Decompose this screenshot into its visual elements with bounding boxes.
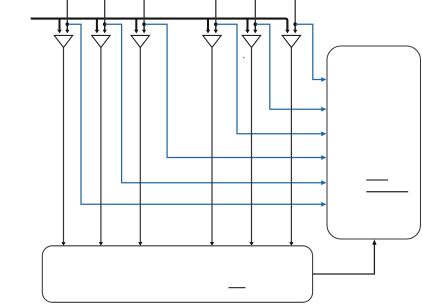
- cell2 input arrow into buffer: [104, 24, 106, 30]
- cell3 blue feedback wire: [145, 24, 322, 157]
- cell5 drive arrow from bus: [247, 18, 249, 31]
- cell6 output wire to bottom block: [290, 48, 292, 243]
- wire bottom block to right block: [313, 243, 375, 274]
- cell2 input wire from top: [104, 0, 106, 24]
- right block (rounded rectangle): [327, 46, 421, 239]
- cell4 junction dot: [214, 22, 218, 26]
- cell3 junction dot: [142, 22, 146, 26]
- cell4 output wire to bottom block: [211, 48, 213, 243]
- right block label underscore short: [366, 179, 388, 181]
- cell1 input wire from top: [66, 0, 68, 24]
- cell1 output wire to bottom block: [63, 48, 65, 243]
- cell1 junction dot: [66, 22, 70, 26]
- cell2 output wire to bottom block: [100, 48, 102, 243]
- cell2 drive arrow from bus: [96, 18, 98, 31]
- cell4 blue feedback wire: [217, 24, 322, 134]
- cell3 input wire from top: [143, 0, 145, 24]
- cell5 junction dot: [254, 22, 258, 26]
- bus (top horizontal thick line with corner into cell6 drop): [31, 19, 288, 31]
- cell1 blue feedback wire: [68, 24, 322, 204]
- stray speck: [243, 57, 245, 59]
- cell4 input arrow into buffer: [215, 24, 217, 30]
- cell1 buffer triangle: [54, 35, 72, 47]
- cell4 drive arrow from bus: [207, 18, 209, 31]
- cell3 drive arrow from bus: [135, 18, 137, 31]
- right block label underscore long: [366, 191, 408, 193]
- cell4 input wire from top: [215, 0, 217, 24]
- cell6 junction dot: [293, 22, 297, 26]
- cell5 buffer triangle: [242, 35, 260, 47]
- cell5 input wire from top: [254, 0, 256, 24]
- cell2 blue feedback wire: [105, 24, 321, 182]
- cell6 buffer triangle: [282, 35, 300, 47]
- cell4 buffer triangle: [203, 35, 221, 47]
- cell3 buffer triangle: [131, 35, 149, 47]
- cell6 drive arrowhead (bus end drop): [285, 30, 289, 34]
- cell5 output wire to bottom block: [251, 48, 253, 243]
- cell6 input wire from top: [294, 0, 296, 24]
- cell6 input arrow into buffer: [294, 24, 296, 30]
- bottom block (rounded rectangle): [42, 246, 312, 302]
- cell2 buffer triangle: [92, 35, 110, 47]
- cell3 output wire to bottom block: [139, 48, 141, 243]
- cell3 input arrow into buffer: [143, 24, 145, 30]
- bottom block label underscore: [228, 287, 245, 289]
- cell1 drive arrow from bus: [59, 18, 61, 31]
- cell6 blue feedback wire: [296, 24, 322, 79]
- cell2 junction dot: [103, 22, 107, 26]
- cell1 input arrow into buffer: [66, 24, 68, 30]
- cell5 input arrow into buffer: [254, 24, 256, 30]
- cell5 blue feedback wire: [256, 24, 322, 109]
